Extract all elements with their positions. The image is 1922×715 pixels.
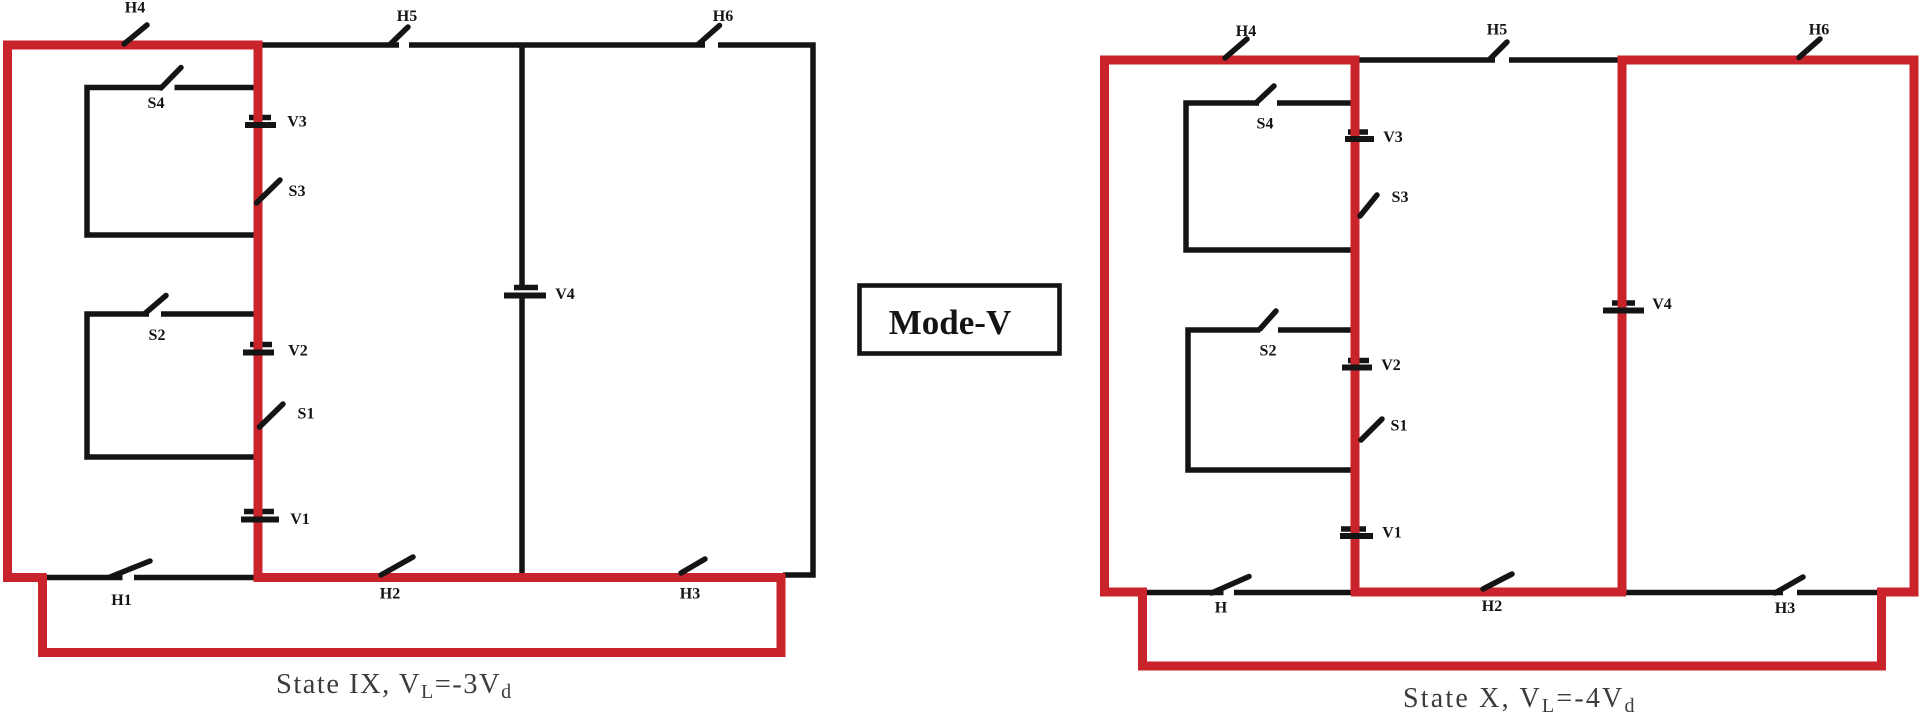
battery V3 (right circuit) long plate over red [1345, 136, 1374, 142]
svg-text:H5: H5 [1487, 22, 1507, 39]
wire: right bottom bus segment between V4 leg and H3 [1622, 590, 1783, 596]
wire: S2 cell box (left circuit) top-right segment [161, 311, 260, 317]
svg-text:State X, VL=-4Vd: State X, VL=-4Vd [1403, 683, 1637, 715]
svg-text:H4: H4 [125, 0, 145, 17]
battery V3 (left circuit) long plate over red [245, 122, 276, 128]
svg-text:H4: H4 [1236, 23, 1256, 40]
switch H3 blade [681, 559, 705, 573]
wire: red bottom bus from main leg to V4 leg [1351, 588, 1626, 597]
wire: red main leg (V3-S3-V2-S1-V1 string) [254, 41, 263, 580]
wire: left top bus segment between H5 and H6 [409, 42, 705, 48]
svg-text:S4: S4 [1257, 116, 1274, 133]
wire: red V4 leg [1618, 56, 1627, 595]
switch H4 blade [124, 25, 147, 44]
wire: red bottom bus from main leg to load corner [254, 573, 786, 582]
wire: red outer loop (top bus, left rail, load step and bottom load rail) [8, 45, 782, 653]
svg-text:V3: V3 [287, 114, 307, 131]
battery V1 (right circuit) long plate over red [1340, 533, 1373, 539]
switch S4 blade [161, 68, 181, 89]
switch H blade (right) [1212, 577, 1250, 594]
svg-text:H6: H6 [713, 8, 733, 25]
svg-text:V3: V3 [1383, 129, 1403, 146]
battery V4 (right circuit) long plate over red [1603, 308, 1644, 314]
switch H2 blade (right) [1483, 574, 1512, 589]
battery V2 (left circuit) short plate under red [250, 342, 272, 348]
wire: left bottom bus segment before H1 [44, 575, 123, 581]
battery V1 (left circuit) long plate over red [241, 517, 279, 523]
svg-text:S2: S2 [149, 327, 166, 344]
battery V2 (right circuit) short plate under red [1348, 358, 1369, 364]
battery V3 (right circuit) short plate under red [1348, 129, 1368, 135]
battery V1 (left circuit) short plate under red [244, 509, 274, 515]
switch H5 blade (right) [1490, 42, 1507, 59]
wire: left top bus segment between H4 junction and H5 [256, 42, 399, 48]
wire: S2 cell box (left circuit) top-left segment, left side and bottom [87, 314, 260, 457]
wire: right top bus segment between H5 and V4 leg [1509, 57, 1622, 63]
wire: S4 cell box (right circuit) top-left segment, left side and bottom [1186, 103, 1357, 250]
svg-text:H5: H5 [397, 8, 417, 25]
wire: left V4 middle leg lower part [519, 298, 525, 580]
wire: S2 cell box (right circuit) top-left segment, left side and bottom [1188, 330, 1357, 470]
svg-text:S4: S4 [148, 95, 165, 112]
wire: S4 cell box (right circuit) top-right segment [1277, 100, 1357, 106]
wire: S4 cell box (left circuit) top-left segment, left side and bottom [87, 88, 260, 236]
wire: right bottom bus segment before H [1145, 590, 1224, 596]
battery V4 (left circuit) short plate [514, 285, 538, 291]
switch S3 blade [257, 180, 281, 203]
switch H6 blade (right) [1799, 39, 1820, 58]
svg-text:H6: H6 [1809, 22, 1829, 39]
switch S2 blade (right) [1260, 311, 1276, 329]
switch H2 blade [381, 557, 413, 575]
wire: right top bus segment between H4 junction and H5 [1357, 57, 1495, 63]
wire: S4 cell box (left circuit) top-right segment [175, 85, 261, 91]
svg-text:Mode-V: Mode-V [889, 303, 1011, 342]
switch S3 blade (right) [1360, 195, 1377, 216]
switch S1 blade (right) [1361, 419, 1382, 440]
battery V2 (right circuit) long plate over red [1342, 365, 1372, 371]
wire: red load loop (step, bottom rail, right step) [1143, 588, 1919, 666]
battery V4 (left circuit) long plate [504, 293, 546, 299]
svg-text:H: H [1215, 600, 1228, 617]
battery V4 (right circuit) short plate under red [1612, 300, 1635, 306]
battery V2 (left circuit) long plate over red [243, 350, 274, 356]
svg-text:V2: V2 [1381, 357, 1401, 374]
svg-text:H3: H3 [1775, 600, 1795, 617]
wire: right bottom bus segment between H and main leg [1234, 590, 1357, 596]
switch H1 blade [110, 561, 150, 577]
switch S1 blade [260, 404, 284, 427]
svg-text:V1: V1 [1382, 525, 1402, 542]
wire: red outer left rail with top bus to main leg [1105, 60, 1360, 592]
battery V1 (right circuit) short plate under red [1341, 526, 1366, 532]
svg-text:H1: H1 [111, 592, 131, 609]
switch H5 blade [390, 27, 408, 45]
svg-text:H2: H2 [1482, 598, 1502, 615]
wire: red main leg (V3-S3-V2-S1-V1 string, right circuit) [1351, 56, 1360, 595]
wire: red right rail and top bus from H6 to V4 leg [1618, 60, 1914, 596]
svg-text:State IX, VL=-3Vd: State IX, VL=-3Vd [276, 669, 513, 703]
svg-text:S3: S3 [1392, 189, 1409, 206]
switch H6 blade [698, 26, 720, 45]
svg-text:V4: V4 [555, 286, 575, 303]
wire: S2 cell box (right circuit) top-right segment [1278, 327, 1357, 333]
mode box frame [860, 286, 1060, 354]
svg-text:V2: V2 [288, 343, 308, 360]
svg-text:H3: H3 [680, 586, 700, 603]
battery V3 (left circuit) short plate under red [249, 115, 271, 121]
svg-text:V4: V4 [1652, 296, 1672, 313]
svg-text:S1: S1 [298, 406, 315, 423]
svg-text:S2: S2 [1260, 343, 1277, 360]
switch H4 blade (right) [1225, 39, 1247, 58]
svg-text:H2: H2 [380, 586, 400, 603]
switch S2 blade [145, 296, 166, 314]
svg-text:S3: S3 [289, 183, 306, 200]
wire: left V4 middle leg upper part [519, 43, 525, 285]
svg-text:S1: S1 [1391, 418, 1408, 435]
switch S4 blade (right) [1257, 86, 1274, 102]
svg-text:V1: V1 [290, 511, 310, 528]
switch H3 blade (right) [1775, 577, 1803, 593]
wire: left bottom bus segment between H1 and main leg [134, 575, 258, 581]
wire: right bottom bus segment after H3 [1797, 590, 1877, 596]
wire: left top bus segment after H6 with right corner down to bottom [718, 45, 813, 575]
